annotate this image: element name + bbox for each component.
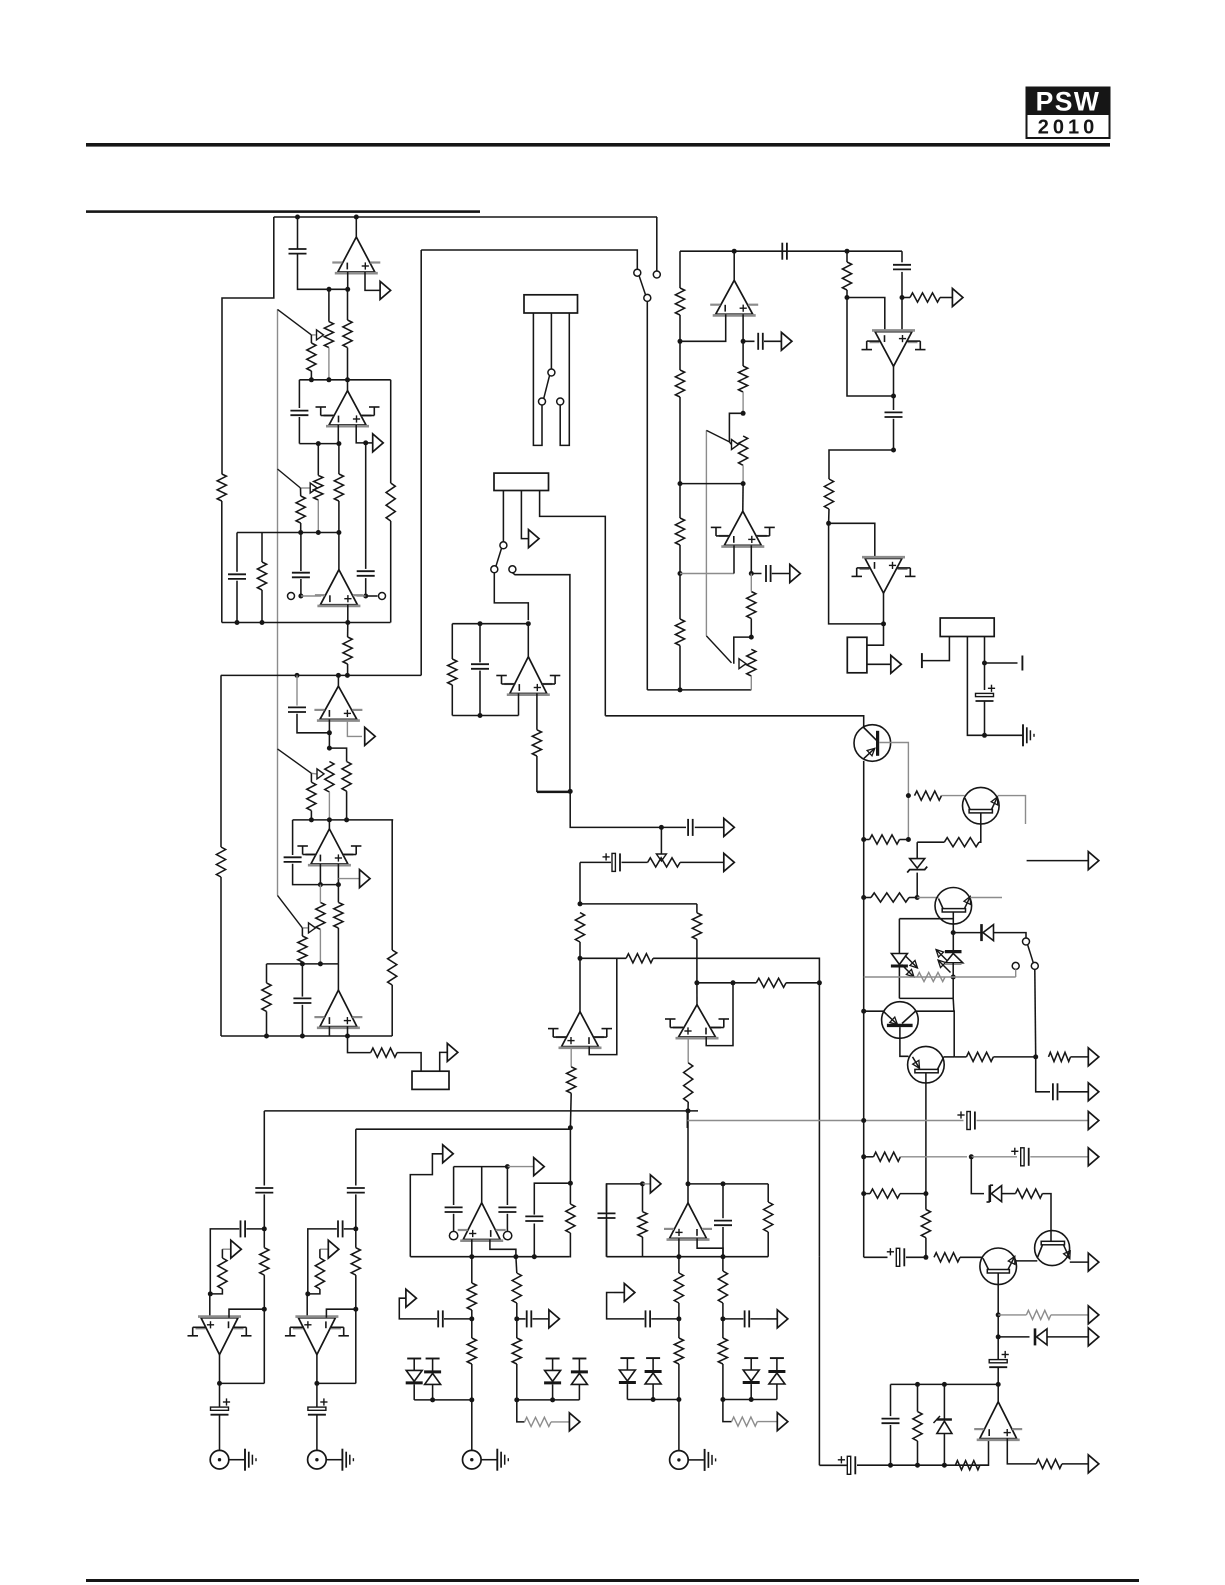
- wire R3 leads: [347, 289, 349, 380]
- node dot U10 fb: [731, 980, 736, 985]
- transistor Q7 bar: [1041, 1241, 1064, 1245]
- wire C5 node to U3 inv bar: [301, 595, 321, 597]
- switch SW4 top: [1023, 938, 1030, 945]
- wire M1 diode line: [414, 1399, 472, 1401]
- wire SW4 left stub: [1015, 969, 1017, 977]
- wire rail bottom corner: [864, 1256, 888, 1258]
- capacitor C39: [882, 1419, 900, 1424]
- op-amp U11: [548, 1012, 612, 1048]
- wire J2 gnd lead: [688, 1459, 704, 1461]
- switch SW2 lever: [544, 376, 550, 399]
- terminal tick D3: [407, 1358, 421, 1360]
- wire M1 bus: [410, 1256, 570, 1258]
- node dot C8 node: [741, 339, 746, 344]
- transistor Q4 body: [882, 1002, 919, 1039]
- page bottom rule: [86, 1579, 1139, 1582]
- wire M2c1 diode line: [627, 1399, 679, 1401]
- wire U3 output stub: [338, 533, 340, 570]
- wiper diagonal pot P4: [706, 636, 731, 663]
- resistor R31: [566, 1204, 575, 1233]
- node dot M1 tap: [469, 1316, 474, 1321]
- node dot pin3: [982, 661, 987, 666]
- wire R61 leads: [925, 1194, 927, 1258]
- diode D6: [571, 1372, 588, 1385]
- wire R45 leads: [308, 1249, 320, 1294]
- resistor R47: [351, 1248, 360, 1275]
- test point TP6: [952, 289, 963, 307]
- wire C15 leads: [580, 861, 648, 863]
- capacitor C12: [885, 412, 903, 417]
- test point TP8: [724, 818, 735, 836]
- resistor R63: [1026, 1310, 1051, 1319]
- wire U12 + input: [471, 1240, 473, 1257]
- transistor Q2 left diag: [965, 798, 970, 809]
- resistor R46: [260, 1248, 269, 1275]
- op-amp U13: [664, 1203, 712, 1240]
- wire R1 to section box: [221, 501, 223, 623]
- node dot rail y1194: [861, 1191, 866, 1196]
- wire R55 to box: [397, 1053, 421, 1072]
- wire s2 mid line: [267, 963, 339, 965]
- switch SW4 right: [1031, 962, 1038, 969]
- wire inv node drop: [328, 733, 330, 748]
- wire C15 corner drop: [579, 862, 581, 904]
- node dot blockA fb: [262, 1307, 267, 1312]
- op-amp U6: [496, 657, 560, 695]
- op-amp U1: [332, 237, 380, 273]
- wire P6 foot: [328, 792, 330, 820]
- test point TP14: [549, 1310, 560, 1328]
- node dot x680 b: [678, 481, 683, 486]
- wire R56 leads: [954, 1056, 1035, 1058]
- resistor R18: [910, 293, 940, 302]
- wire wiper node P2: [301, 487, 312, 489]
- wire R36 leads: [515, 1257, 518, 1319]
- resistor R44: [218, 1258, 227, 1289]
- wire M2c1 to RCA: [678, 1400, 680, 1451]
- wire R5 leads: [338, 444, 340, 533]
- wire U6 inv input: [518, 694, 520, 716]
- capacitor C19: [598, 1213, 616, 1218]
- switch SW2 contact top: [548, 369, 555, 376]
- op-amp U5b: [297, 829, 361, 865]
- node dot s2 R48 foot: [344, 817, 349, 822]
- wire zener drop: [916, 842, 918, 858]
- wire top input bus y=217: [274, 216, 657, 218]
- resistor R26: [575, 913, 584, 942]
- wire D7 leads: [626, 1358, 628, 1399]
- wire jog to R48: [329, 748, 346, 761]
- wire blockB feed line: [356, 1128, 571, 1130]
- wire select top y=250: [421, 250, 637, 269]
- wire P4 foot: [750, 676, 752, 690]
- transistor Q4 left diag: [884, 1012, 898, 1025]
- wire M2c2 drop: [723, 1400, 732, 1422]
- wire Q4 right jog: [916, 1011, 955, 1057]
- node dot C5 foot: [298, 594, 303, 599]
- wire blockA output: [220, 1355, 265, 1384]
- node dot P2 foot: [316, 530, 321, 535]
- node dot rail y1157: [861, 1154, 866, 1159]
- transistor Q1 emitter diag: [864, 748, 875, 758]
- wire C33 leads: [301, 964, 303, 1036]
- node dot M1 bus a: [469, 1254, 474, 1259]
- wire C24 leads: [723, 1318, 767, 1320]
- switch SW1 contact a: [634, 269, 641, 276]
- wire U12 - jog: [490, 1240, 516, 1257]
- photo element DT1 triangle: [945, 953, 963, 964]
- resistor R28: [756, 978, 786, 987]
- capacitor C25: [255, 1188, 273, 1193]
- wire U5b inv input: [319, 864, 321, 885]
- resistor R11: [675, 288, 684, 315]
- wire R65 to inv: [980, 1439, 989, 1466]
- wire select alt: [656, 217, 658, 271]
- resistor R34: [467, 1283, 476, 1310]
- node dot C4 foot: [235, 620, 240, 625]
- resistor R21: [915, 791, 942, 800]
- node dot U8 + node: [900, 295, 905, 300]
- test point TP18: [777, 1413, 788, 1431]
- resistor R3: [343, 320, 352, 348]
- wire M1 capL drop: [453, 1167, 455, 1205]
- wiper diagonal pot P2: [278, 469, 301, 488]
- transistor Q3 right diag: [964, 896, 971, 908]
- terminal tick T1: [921, 653, 923, 668]
- capacitor C26: [347, 1188, 365, 1193]
- op-amp U3: [315, 570, 363, 606]
- transistor Q6 left diag: [983, 1258, 989, 1269]
- wire section1 left drop: [298, 380, 300, 408]
- pot P1 wiper arrow: [317, 330, 324, 340]
- wire U10 noninv drop: [687, 1037, 689, 1063]
- node dot pot P1 top: [327, 287, 332, 292]
- wire U9 out to link: [867, 624, 884, 645]
- wire D2 left lead: [953, 932, 981, 934]
- transistor Q1 bar: [876, 731, 879, 756]
- wire R41 leads: [722, 1257, 724, 1319]
- node dot R8 top: [345, 620, 350, 625]
- resistor R23: [871, 893, 909, 902]
- capacitor C29 polarized: [211, 1398, 231, 1414]
- node dot rail r21: [906, 793, 911, 798]
- wire U6 output stub: [527, 624, 529, 657]
- wire U3 noninv to C6 node: [347, 605, 349, 623]
- node dot U1 inv input: [345, 287, 350, 292]
- wire R20 leads: [864, 839, 909, 841]
- capacitor C37 polarized: [887, 1248, 905, 1266]
- wire R21 to Q2: [942, 795, 965, 797]
- transistor Q4 right diag: [902, 1011, 916, 1023]
- resistor R42: [718, 1338, 727, 1364]
- wire R19 foot: [828, 509, 830, 523]
- wire U5b output stub: [328, 820, 330, 829]
- wire C11 bottom: [901, 272, 903, 298]
- transistor Q7 body: [1035, 1231, 1070, 1266]
- diode D2: [982, 924, 994, 941]
- wire opto to limiter: [952, 998, 955, 1011]
- resistor R38: [525, 1417, 552, 1426]
- transistor Q5 body: [908, 1046, 945, 1083]
- resistor R8 interstage: [343, 637, 352, 664]
- test point TP24: [1088, 1048, 1099, 1066]
- node dot u16 r: [915, 1382, 920, 1387]
- node dot U9 out: [881, 621, 886, 626]
- test point TP22: [360, 870, 371, 888]
- wire U10 inv jog: [706, 983, 733, 1046]
- wire blockA fb col: [263, 1229, 265, 1384]
- wire R49 leads: [310, 773, 312, 820]
- switch SW3 contact top: [500, 542, 507, 549]
- wire DT1 foot: [952, 963, 954, 999]
- wire C2 to node: [298, 417, 300, 444]
- node dot u16 z: [942, 1382, 947, 1387]
- node dot gnd node: [982, 733, 987, 738]
- resistor R14: [675, 619, 684, 646]
- wire U2 non-inv jog: [356, 425, 366, 443]
- wire x=680 top corner: [679, 251, 681, 288]
- terminal tick D8: [646, 1357, 660, 1359]
- wire D6 leads: [578, 1359, 580, 1400]
- wire R60 leads: [864, 1193, 926, 1195]
- wire SW1 common drop: [646, 301, 648, 690]
- terminal circle J-noninv: [379, 593, 386, 600]
- capacitor C13 polarized: [976, 685, 996, 701]
- resistor R35: [467, 1338, 476, 1364]
- wiper diagonal pot P3: [706, 430, 729, 442]
- terminal tick D7: [620, 1357, 634, 1359]
- photo element DT1 bar: [945, 950, 962, 953]
- node dot u16 bl: [888, 1463, 893, 1468]
- wire R2 leads: [310, 335, 312, 380]
- wire U11 output: [579, 958, 581, 1011]
- wire pot bottom rail: [647, 689, 751, 691]
- connector K2 pin1: [502, 491, 504, 542]
- wire to TP2: [366, 442, 373, 444]
- wire M2 left col: [607, 1184, 643, 1257]
- wire R39 leads: [678, 1257, 680, 1319]
- wire Q1 base lead: [879, 743, 908, 840]
- pot P7 element: [316, 902, 325, 929]
- wire R59 to Q7: [1042, 1194, 1051, 1242]
- wire wiper node P7: [302, 927, 308, 929]
- wire blockB plus input: [306, 1294, 308, 1318]
- wire U7 inv input: [733, 545, 735, 573]
- wire diode line: [998, 1336, 1029, 1338]
- wire DZ1 node to Q3: [917, 897, 938, 899]
- resistor R45: [315, 1258, 324, 1289]
- wire section2 top line: [221, 674, 421, 676]
- connector K3 pin3: [984, 637, 986, 664]
- test point TP26: [1088, 1112, 1099, 1130]
- transistor Q3 left diag: [939, 899, 944, 909]
- wire R40 leads: [678, 1319, 680, 1400]
- wire zener drop2: [971, 1157, 984, 1194]
- capacitor C8: [758, 333, 763, 350]
- resistor R57: [1049, 1052, 1071, 1061]
- wire section1 mid line y=532.5: [237, 532, 339, 534]
- wire C20 foot: [722, 1227, 724, 1257]
- wire C11 drop: [901, 251, 903, 262]
- wire + node to U8: [901, 298, 903, 332]
- zener diode DZ3: [934, 1416, 952, 1434]
- wire s2 left drop: [292, 820, 294, 855]
- wire blockB fb col: [355, 1229, 357, 1384]
- wire s2 right edge: [391, 820, 393, 1036]
- wire blockA feed line: [264, 1110, 698, 1112]
- node dot q6 a: [996, 1312, 1001, 1317]
- wire TP16 lead: [614, 1292, 624, 1294]
- wire s2 out drop: [348, 1036, 371, 1053]
- test point TP2: [373, 434, 384, 452]
- wire R51 leads: [301, 928, 303, 964]
- pot P3 wiper arrow: [732, 440, 739, 450]
- wire C13 foot: [984, 701, 986, 735]
- resistor R9: [448, 659, 457, 685]
- node dot P2 top: [316, 441, 321, 446]
- transistor Q6 bar: [987, 1270, 1009, 1274]
- wire R64 leads: [917, 1384, 919, 1465]
- wire R7 leads: [261, 533, 263, 623]
- wire Q4 base drop: [900, 1027, 909, 1056]
- pot P2 wiper arrow: [310, 483, 317, 493]
- resistor R56: [966, 1052, 993, 1061]
- terminal circle M1 L: [449, 1231, 457, 1239]
- wire R35 leads: [471, 1319, 473, 1400]
- resistor R5: [334, 474, 343, 501]
- wire U4 noninv jog: [347, 719, 362, 736]
- capacitor C15 polarized: [603, 853, 621, 871]
- resistor R62: [934, 1253, 960, 1262]
- wire feedback right edge bottom: [390, 521, 392, 623]
- wire R25 leads: [696, 904, 698, 983]
- wire P4 wiper jog: [734, 637, 752, 664]
- wire U10 output: [696, 983, 698, 1005]
- node dot M1 cap r: [505, 1164, 510, 1169]
- wire feedback right edge top: [390, 380, 392, 483]
- resistor R33: [764, 1202, 773, 1232]
- test point TP15: [569, 1413, 580, 1431]
- wire blockA main vert top: [263, 1111, 265, 1186]
- wire pin3 to cap: [984, 663, 986, 690]
- connector K2 body: [494, 473, 549, 490]
- op-amp U16: [974, 1402, 1022, 1440]
- node dot M2c1 d: [651, 1397, 656, 1402]
- wire wiper node P6: [311, 772, 316, 775]
- pot P7 wiper arrow: [309, 923, 316, 933]
- wire inv node to U9: [829, 523, 875, 558]
- node dot s2 cap top: [295, 673, 300, 678]
- wire LK1 out: [867, 663, 891, 665]
- wire U4 inv input: [328, 719, 330, 732]
- wire blockA cap link: [210, 1229, 264, 1294]
- test point TP28: [1088, 1253, 1099, 1271]
- node dot U16 in: [996, 1382, 1001, 1387]
- capacitor C16: [445, 1207, 463, 1212]
- node dot R4 foot: [298, 530, 303, 535]
- resistor R41: [718, 1271, 727, 1303]
- wire R30 foot: [569, 1093, 572, 1128]
- transistor Q3 bar: [942, 909, 965, 912]
- wire blockB R to TP: [320, 1248, 329, 1250]
- wire C32 foot: [293, 864, 339, 885]
- node dot blockB out: [314, 1381, 319, 1386]
- resistor R30: [567, 1067, 576, 1093]
- diode D5: [544, 1370, 561, 1383]
- ground G3: [705, 1449, 716, 1471]
- connector K3 pin2: [967, 637, 1022, 736]
- wire U9b noninv input: [347, 1027, 349, 1036]
- wire y983 line: [697, 982, 756, 984]
- wire C7 leads: [479, 624, 481, 716]
- wire D11 to TP: [1047, 1336, 1088, 1338]
- test point TP21: [365, 727, 376, 745]
- gray mute rail: [864, 976, 1016, 978]
- terminal circle M1 R: [503, 1231, 511, 1239]
- capacitor C31: [288, 707, 306, 712]
- terminal tick D6: [572, 1358, 586, 1360]
- node dot R8 foot: [345, 673, 350, 678]
- wire Q7 emitter to TP: [1070, 1261, 1089, 1263]
- wire U5 output: [733, 251, 735, 280]
- resistor R6 feedback: [386, 483, 395, 521]
- capacitor C4: [228, 574, 246, 579]
- wire LED bottom lead: [898, 968, 900, 999]
- resistor R1 left rail: [217, 474, 226, 501]
- node dot s2 U5b out: [327, 817, 332, 822]
- terminal circle J-inv: [288, 593, 295, 600]
- wire U8 output: [893, 366, 895, 396]
- node dot blockB feed: [568, 1125, 573, 1130]
- wire R34 leads: [471, 1257, 473, 1319]
- node dot M2c1 tap: [676, 1316, 681, 1321]
- RCA jack J3: [210, 1450, 229, 1469]
- transistor Q1 body: [854, 725, 891, 762]
- wire pcap lead: [819, 1464, 847, 1466]
- wire R10 to join: [537, 756, 570, 791]
- wire Q1 emitter rail: [863, 761, 865, 1257]
- resistor R24: [917, 972, 945, 981]
- op-amp U4: [314, 686, 362, 721]
- resistor R15: [739, 366, 748, 392]
- resistor R52: [262, 983, 271, 1012]
- node dot x680 c: [678, 571, 683, 576]
- resistor R22: [944, 838, 979, 847]
- gray wiper bus left channel: [277, 309, 279, 895]
- test point TP10: [443, 1145, 454, 1163]
- resistor R36: [512, 1273, 521, 1303]
- resistor R64: [913, 1412, 922, 1441]
- connector K3 pin1: [922, 637, 950, 661]
- photo arrows: [936, 950, 951, 973]
- node dot U4 inv: [327, 730, 332, 735]
- wire U7 noninv jog: [751, 545, 761, 573]
- wire long vertical to section2: [420, 250, 422, 675]
- wire C1 bottom to inverting node: [298, 254, 348, 290]
- wire R17 leads: [846, 251, 848, 297]
- node dot C12 foot: [891, 448, 896, 453]
- pot P5 element: [648, 858, 681, 867]
- node dot rail b: [861, 895, 866, 900]
- op-amp U9b: [314, 990, 362, 1028]
- wire output tie line: [680, 483, 743, 485]
- PSW 2010 logo: [1027, 87, 1110, 139]
- transistor Q4 bar: [887, 1024, 913, 1027]
- wire Q2 base chain: [979, 813, 981, 842]
- wire U5 noninv jog: [743, 314, 754, 341]
- wire gray y1157 c: [1030, 1156, 1088, 1158]
- node dot s2 plus node: [336, 882, 341, 887]
